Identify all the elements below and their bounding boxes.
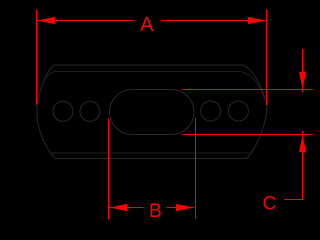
svg-text:A: A	[140, 14, 154, 36]
dim B extension line left	[108, 119, 110, 220]
svg-text:B: B	[149, 201, 162, 222]
dim A line right segment	[162, 20, 266, 22]
dim C lower arrowhead	[299, 135, 306, 153]
dim B arrow right	[176, 204, 194, 211]
dim C lower arrow line	[302, 131, 304, 200]
dim A extension line right	[266, 10, 268, 106]
part outline (clamp plate body)	[37, 65, 267, 159]
chamfer edge bottom	[52, 152, 250, 154]
dim B line right segment	[167, 207, 194, 209]
hole 2	[80, 101, 100, 121]
svg-text:C: C	[263, 194, 277, 215]
dim C leader	[284, 199, 303, 201]
dim B extension line right	[195, 118, 197, 219]
chamfer edge top	[39, 72, 265, 100]
dim A arrow right	[248, 17, 266, 24]
dim A line left segment	[37, 20, 133, 22]
dim B arrow left	[110, 204, 128, 211]
hole 3	[201, 101, 221, 121]
dim C extension line top	[182, 89, 312, 91]
dim C upper arrow line	[302, 49, 304, 92]
slot (central obround hole)	[110, 90, 195, 135]
dim A extension line left	[36, 10, 38, 105]
hole 1	[53, 101, 73, 121]
dim B line left segment	[110, 207, 144, 209]
hole 4	[228, 101, 248, 121]
dim A arrow left	[37, 17, 55, 24]
dim C upper arrowhead	[299, 72, 306, 90]
dim C extension line bottom	[182, 134, 312, 136]
